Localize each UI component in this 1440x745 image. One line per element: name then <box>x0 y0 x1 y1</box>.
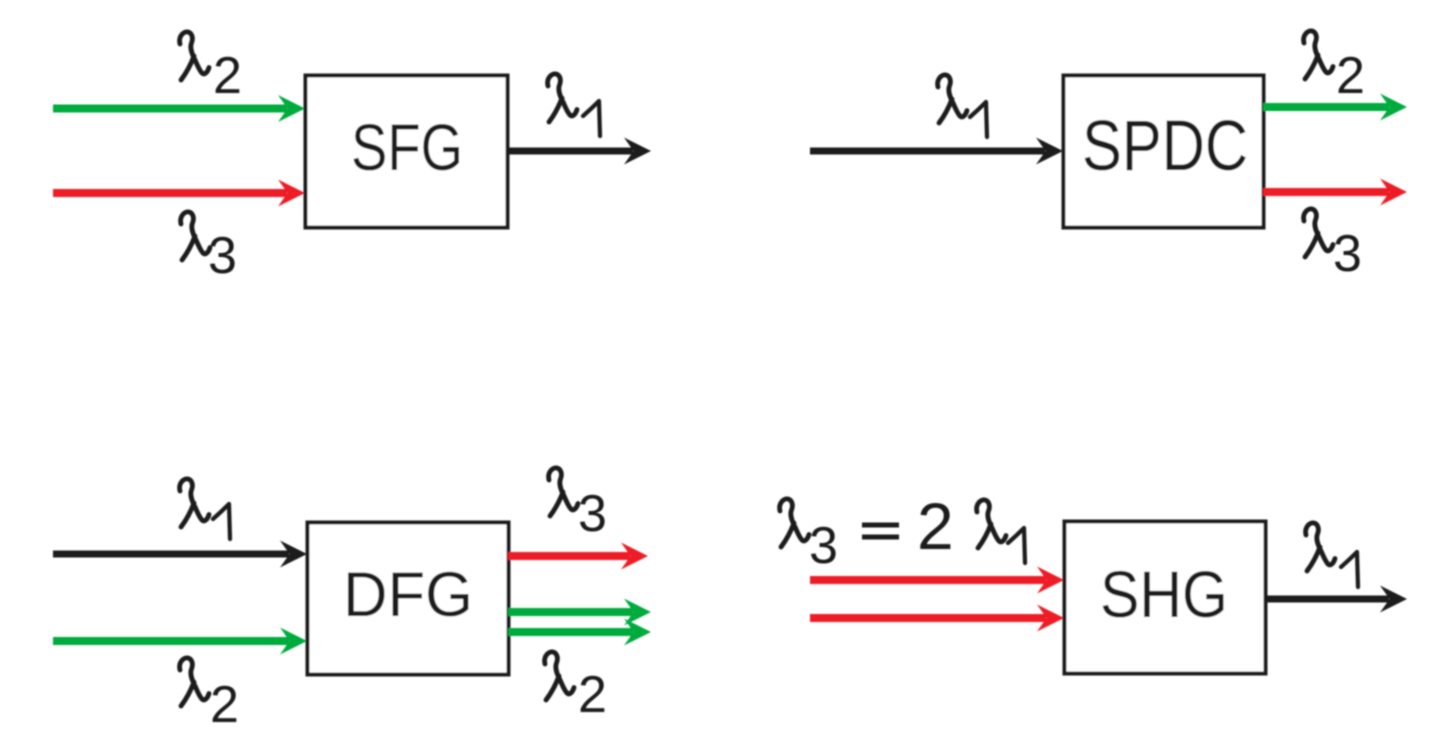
box SPDC <box>1064 76 1264 228</box>
node label lambda1 (SFG output) <box>548 74 600 136</box>
node label lambda1 (SHG output) <box>1306 523 1358 587</box>
node label lambda2 (SFG input) <box>180 32 242 105</box>
svg-text:2: 2 <box>1336 47 1365 105</box>
box SHG <box>1065 522 1266 674</box>
svg-text:DFG: DFG <box>343 560 473 630</box>
wire: lower green output arrow (lambda2 pair) from DFG <box>508 619 651 646</box>
node label lambda3 (SPDC output) <box>1304 209 1362 283</box>
wire: lower red input arrow into SHG <box>810 605 1064 632</box>
svg-text:SHG: SHG <box>1100 557 1228 631</box>
svg-text:2: 2 <box>210 676 239 734</box>
svg-text:2: 2 <box>578 666 607 724</box>
node label lambda3 (SFG input) <box>181 212 237 285</box>
svg-text:2: 2 <box>213 47 242 105</box>
wire: upper red input arrow into SHG <box>810 567 1064 594</box>
wire: black output arrow (lambda1) from SFG <box>509 138 651 165</box>
svg-text:3: 3 <box>809 517 838 575</box>
svg-text:SFG: SFG <box>351 110 463 184</box>
node label lambda2 (DFG output) <box>545 652 607 724</box>
wire: red input arrow (lambda3) into SFG <box>53 180 305 207</box>
wire: green output arrow (lambda2) from SPDC <box>1263 94 1407 121</box>
wire: red output arrow (lambda3) from SPDC <box>1263 179 1407 206</box>
node label lambda2 (SPDC output) <box>1304 31 1365 105</box>
svg-text:3: 3 <box>578 485 607 543</box>
wire: black input arrow (lambda1) into DFG <box>53 541 307 568</box>
svg-text:3: 3 <box>208 227 237 285</box>
svg-text:SPDC: SPDC <box>1082 107 1248 186</box>
wire: black input arrow (lambda1) into SPDC <box>810 138 1063 165</box>
node label lambda1 (SPDC input) <box>938 75 987 137</box>
box SFG <box>306 76 508 228</box>
box DFG <box>308 523 509 675</box>
wire: black output arrow (lambda1) from SHG <box>1265 586 1407 613</box>
wire: upper green output arrow (lambda2 pair) from DFG <box>508 599 651 626</box>
svg-text:2: 2 <box>917 489 954 563</box>
node label formula lambda3 = 2 lambda1 <box>780 489 1025 575</box>
node label lambda2 (DFG input) <box>180 658 239 734</box>
svg-text:3: 3 <box>1333 225 1362 283</box>
node label lambda1 (DFG input) <box>180 479 230 539</box>
wire: red output arrow (lambda3) from DFG <box>508 543 648 570</box>
wire: green input arrow (lambda2) into DFG <box>53 628 307 655</box>
node label lambda3 (DFG output) <box>549 468 607 543</box>
wire: green input arrow (lambda2) into SFG <box>53 95 305 122</box>
